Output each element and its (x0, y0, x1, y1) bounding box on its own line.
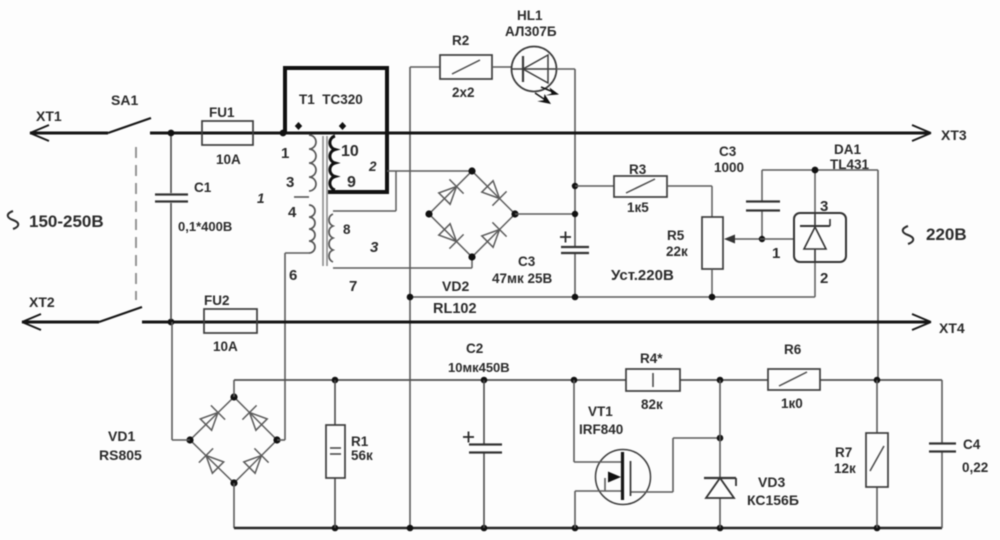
transformer T1 winding II (pins 10-9) (330, 136, 335, 190)
bridge rectifier VD1 (190, 397, 277, 483)
wire DA1 node to R7 vertical (877, 170, 879, 381)
switch SA1 pole 1 (108, 118, 151, 133)
capacitor C3 (47uF) (561, 247, 589, 253)
terminal XT4 arrow (912, 314, 931, 330)
svg-text:XT4: XT4 (939, 320, 965, 336)
svg-text:6: 6 (289, 267, 297, 284)
svg-text:T1 TC320: T1 TC320 (299, 92, 363, 107)
capacitor C4 (941, 380, 943, 528)
resistor R7 (876, 380, 878, 528)
wire HL1 to right branch (556, 68, 575, 70)
svg-text:C2: C2 (466, 341, 483, 356)
svg-text:RS805: RS805 (99, 447, 142, 463)
node R1 top (332, 377, 339, 384)
svg-text:2: 2 (820, 270, 828, 287)
svg-text:C1: C1 (194, 180, 212, 195)
svg-text:R3: R3 (629, 162, 647, 177)
svg-text:VD2: VD2 (442, 278, 469, 294)
bridge rectifier VD2 (429, 171, 515, 257)
switch SA1 pole 2 (99, 307, 142, 322)
svg-text:Уст.220В: Уст.220В (611, 267, 674, 284)
node VD3 top (717, 377, 724, 384)
fuse FU1 (202, 121, 253, 145)
switch SA1 mechanical link (dashed) (135, 147, 137, 300)
svg-text:XT3: XT3 (941, 127, 967, 143)
node VT1 drain to VD3 (717, 435, 724, 442)
wire VD1 left vertex to XT2 line (172, 322, 190, 440)
svg-text:C4: C4 (963, 437, 981, 452)
node VT1 source bottom (572, 525, 579, 532)
svg-text:1к0: 1к0 (781, 396, 803, 411)
node R2 branch bottom (407, 525, 414, 532)
wire VD1 top vertex to DC rail (233, 380, 235, 397)
svg-text:2x2: 2x2 (452, 85, 475, 100)
resistor R2 (410, 66, 440, 68)
svg-text:R7: R7 (835, 445, 852, 460)
wire XT2-XT4 lower mains line (22, 321, 930, 324)
wire winding I bottom to pin 6 (285, 252, 309, 254)
svg-text:0,1*400В: 0,1*400В (178, 219, 232, 234)
svg-text:10мк450В: 10мк450В (448, 360, 510, 375)
potentiometer R5 (702, 217, 723, 269)
IC DA1 TL431 (794, 213, 846, 262)
transformer T1 core (323, 136, 327, 266)
svg-text:RL102: RL102 (433, 301, 477, 317)
svg-text:47мк 25В: 47мк 25В (492, 271, 553, 286)
svg-text:3: 3 (370, 239, 379, 256)
node C1 top (168, 130, 175, 137)
LED HL1 (512, 47, 557, 92)
wire winding III pin7 to VD2 bottom (333, 257, 472, 268)
wire DC rail (upper) (234, 379, 942, 381)
zener diode VD3 (719, 380, 721, 528)
wire VD1 right vertex to pin6 wire (277, 439, 285, 441)
svg-text:0,22: 0,22 (962, 460, 988, 475)
svg-text:XT1: XT1 (36, 108, 62, 124)
node DA1 pin3 (812, 167, 819, 174)
wire R3 to R5 (667, 186, 712, 217)
wire winding II out to VD2 top (333, 171, 472, 211)
fuse FU2 (204, 309, 257, 333)
node R7 top (874, 377, 881, 384)
node R1 bottom (332, 525, 339, 532)
resistor R6 (768, 369, 820, 390)
transformer T1 winding III (pins 8-7) (329, 214, 333, 262)
terminal XT1 arrow (30, 125, 49, 141)
node VD3 bottom (717, 525, 724, 532)
svg-text:FU2: FU2 (204, 293, 230, 308)
wire R2/HL1 branch left vertical (409, 67, 411, 528)
wire control minus (y297) (410, 262, 815, 297)
svg-text:VT1: VT1 (588, 404, 613, 419)
wire VD1 bottom vertex to bottom rail (233, 483, 235, 528)
wire bottom rail (234, 527, 942, 530)
svg-text:IRF840: IRF840 (579, 422, 623, 437)
svg-text:HL1: HL1 (517, 8, 543, 23)
svg-text:R2: R2 (452, 33, 469, 48)
node C2 bottom (481, 525, 488, 532)
node R7 bottom (874, 525, 881, 532)
svg-text:DA1: DA1 (834, 142, 861, 157)
node T1 box joint (280, 130, 287, 137)
svg-text:56к: 56к (351, 448, 373, 463)
svg-text:1000: 1000 (714, 160, 744, 175)
wire VD2 right vertex to C3 node (515, 213, 575, 215)
transformer T1 winding I tap (pins 3/4) (294, 196, 309, 198)
transformer T1 winding I lower section (pins 4-6) (309, 205, 315, 253)
svg-text:FU1: FU1 (209, 105, 235, 120)
transistor VT1 IRF840 (596, 450, 651, 505)
svg-text:150-250В: 150-250В (29, 212, 104, 231)
resistor R3 (575, 185, 614, 187)
capacitor C2 (483, 380, 485, 528)
svg-text:10A: 10A (216, 152, 241, 167)
node VT1 gate (571, 377, 578, 384)
wire transformer pin6 to VD1 right vertex (284, 253, 286, 440)
svg-text:1: 1 (281, 145, 289, 162)
svg-text:1к5: 1к5 (627, 200, 649, 215)
capacitor C1 (170, 136, 172, 320)
wire XT1-XT3 top mains line (30, 132, 930, 135)
wire DA1 cathode node (y170) (762, 170, 878, 213)
terminal XT3 arrow (912, 125, 931, 141)
svg-text:КС156Б: КС156Б (747, 492, 799, 508)
wire wiper node to DA1 pin 1 (760, 238, 794, 240)
node y297 left (407, 294, 414, 301)
node C3-1000 bottom (759, 236, 765, 242)
resistor R1 (326, 380, 345, 528)
node R3 left (572, 183, 578, 189)
capacitor C3 (1000) (761, 170, 763, 239)
svg-text:SA1: SA1 (111, 92, 138, 108)
svg-text:TL431: TL431 (830, 157, 870, 172)
svg-text:C3: C3 (518, 254, 536, 269)
svg-text:10A: 10A (213, 339, 238, 354)
polarity dot winding II (339, 122, 346, 130)
node R5 bottom (709, 294, 716, 301)
terminal XT2 arrow (22, 314, 41, 330)
node C3 bottom (572, 294, 579, 301)
svg-text:22к: 22к (666, 244, 688, 259)
LED HL1 emission arrows (535, 87, 552, 99)
svg-text:АЛ307Б: АЛ307Б (505, 24, 557, 39)
resistor R4 (626, 369, 680, 391)
svg-text:2: 2 (368, 159, 377, 174)
svg-text:8: 8 (343, 222, 351, 237)
svg-text:1: 1 (772, 245, 780, 262)
svg-text:VD3: VD3 (758, 474, 785, 490)
label AC 220V (903, 226, 914, 244)
svg-text:10: 10 (341, 143, 359, 160)
transformer T1 shield box (285, 68, 387, 192)
svg-text:3: 3 (820, 198, 828, 215)
transformer T1 winding I upper section (pins 1-3) (309, 135, 316, 191)
svg-text:12к: 12к (834, 461, 856, 476)
svg-text:R5: R5 (667, 228, 685, 243)
svg-text:9: 9 (347, 174, 356, 191)
svg-text:C3: C3 (719, 144, 737, 159)
svg-text:7: 7 (349, 278, 357, 295)
svg-text:220В: 220В (926, 225, 967, 244)
svg-text:82к: 82к (641, 397, 663, 412)
label AC 150-250V (8, 211, 19, 229)
svg-text:VD1: VD1 (108, 428, 135, 444)
svg-text:3: 3 (286, 174, 294, 191)
node C2 top (481, 377, 488, 384)
svg-text:R1: R1 (351, 434, 369, 449)
svg-text:R6: R6 (784, 342, 802, 357)
polarity dot winding I (295, 122, 302, 130)
svg-text:XT2: XT2 (29, 294, 55, 310)
svg-text:4: 4 (288, 204, 297, 221)
svg-text:1: 1 (257, 191, 265, 206)
svg-text:R4*: R4* (640, 351, 663, 366)
wire HL1 right branch vertical (574, 69, 576, 297)
node C1 bottom (168, 319, 175, 326)
